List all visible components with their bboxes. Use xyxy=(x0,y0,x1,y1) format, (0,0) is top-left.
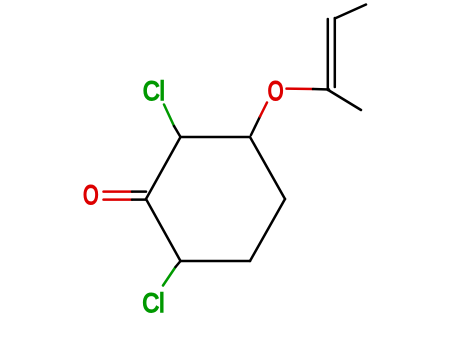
ring edge B-C xyxy=(181,136,251,139)
bond O-V1 black half xyxy=(313,88,329,91)
Cl top bond green half xyxy=(164,105,174,127)
svg-text:Cl: Cl xyxy=(142,288,164,318)
ring edge C-D xyxy=(250,137,285,199)
methyl at V2 xyxy=(335,5,366,19)
methyl at V1 xyxy=(328,90,361,110)
svg-text:Cl: Cl xyxy=(143,77,165,107)
ring edge A-B xyxy=(146,137,181,199)
Cl top bond black half xyxy=(174,126,181,137)
bond C-O black half xyxy=(251,117,260,136)
C=O double bond black halves xyxy=(132,192,146,200)
Cl bottom bond black half xyxy=(176,261,181,267)
svg-text:O: O xyxy=(83,181,98,211)
bond C-O red half xyxy=(260,103,267,117)
svg-text:O: O xyxy=(268,76,284,107)
C=O double bond red halves xyxy=(104,192,133,200)
ring edge F-A xyxy=(146,199,181,261)
ring edge E-F xyxy=(181,260,251,263)
ring edge D-E xyxy=(250,199,285,261)
bond O-V1 red half xyxy=(287,87,314,90)
vinyl C=C double bond xyxy=(328,18,335,90)
Cl bottom bond green half xyxy=(163,267,176,286)
